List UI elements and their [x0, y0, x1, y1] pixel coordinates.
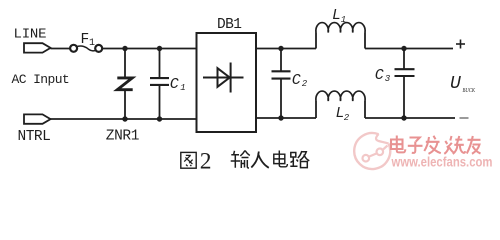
- svg-text:2: 2: [344, 113, 350, 123]
- svg-text:C: C: [375, 67, 384, 84]
- svg-text:F: F: [81, 32, 90, 48]
- svg-text:ZNR1: ZNR1: [106, 129, 139, 145]
- svg-text:NTRL: NTRL: [18, 129, 51, 145]
- svg-text:AC Input: AC Input: [12, 72, 70, 87]
- svg-text:LINE: LINE: [14, 27, 47, 43]
- svg-text:U: U: [450, 74, 461, 94]
- svg-text:C: C: [170, 76, 179, 93]
- svg-text:2: 2: [302, 79, 308, 89]
- svg-text:3: 3: [385, 74, 391, 84]
- svg-text:1: 1: [341, 15, 346, 25]
- svg-text:www.elecfans.com: www.elecfans.com: [391, 154, 493, 170]
- svg-text:2: 2: [200, 149, 212, 175]
- svg-text:L: L: [332, 7, 341, 24]
- svg-text:C: C: [292, 72, 301, 89]
- svg-text:1: 1: [180, 83, 185, 93]
- svg-text:1: 1: [89, 38, 95, 49]
- svg-text:DB1: DB1: [217, 17, 241, 33]
- svg-text:BUCK: BUCK: [463, 87, 476, 94]
